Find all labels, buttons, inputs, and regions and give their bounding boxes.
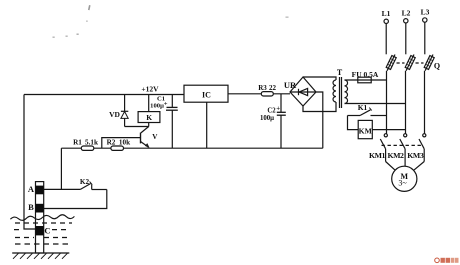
resistor R3 xyxy=(258,84,276,96)
contactor coil KM xyxy=(348,116,406,139)
svg-text:KM3: KM3 xyxy=(407,151,424,160)
svg-text:Q: Q xyxy=(434,62,440,71)
svg-text:R2: R2 xyxy=(107,138,116,146)
svg-text:100μ: 100μ xyxy=(260,115,274,122)
svg-text:VD: VD xyxy=(109,110,120,119)
svg-text:B: B xyxy=(28,202,34,212)
node KM3 label xyxy=(407,151,424,160)
svg-text:5.1k: 5.1k xyxy=(85,138,98,146)
scan noise marks xyxy=(53,5,289,38)
capacitor C2 xyxy=(260,94,286,148)
contact KM3 xyxy=(419,134,426,162)
svg-text:A: A xyxy=(28,184,35,194)
svg-text:V: V xyxy=(152,133,158,141)
water dashes row4 xyxy=(15,243,71,245)
node KM2 label xyxy=(387,151,404,160)
diode VD xyxy=(109,95,128,127)
watermark logo xyxy=(435,258,459,263)
wire primary top / fuse feed xyxy=(345,79,387,81)
wire L2 phase drop xyxy=(405,71,407,134)
svg-text:K: K xyxy=(146,113,152,122)
wire +12V top rail xyxy=(24,94,184,96)
wire bridge right to ground rail xyxy=(316,92,323,148)
water dashes row3 xyxy=(15,237,71,239)
electrode probe bar xyxy=(36,182,44,253)
svg-text:+12V: +12V xyxy=(141,84,159,93)
wire IC output xyxy=(228,93,290,95)
svg-text:FU 0.5A: FU 0.5A xyxy=(352,70,379,79)
wire sensor loop right/bottom xyxy=(44,190,107,209)
svg-text:R1: R1 xyxy=(73,138,82,146)
svg-text:K1: K1 xyxy=(358,103,368,112)
relay coil K xyxy=(138,95,160,127)
svg-text:C2: C2 xyxy=(267,107,276,114)
water surface wave xyxy=(10,215,74,221)
bridge rectifier UR xyxy=(284,77,316,106)
wire VD to K bottom node xyxy=(125,126,149,128)
switch K2 (relay contact) xyxy=(44,178,107,189)
wire bridge top to transformer secondary xyxy=(303,77,336,80)
node C electrode label xyxy=(44,226,50,236)
node L2 terminal xyxy=(402,9,411,55)
switch Q pole 1 xyxy=(386,55,396,71)
switch Q pole 2 xyxy=(405,55,415,71)
contact KM2 xyxy=(400,134,407,167)
svg-text:100μ: 100μ xyxy=(150,102,164,109)
svg-text:10k: 10k xyxy=(119,138,130,146)
svg-text:L1: L1 xyxy=(382,9,391,18)
node A electrode label xyxy=(28,184,35,194)
contact KM1 xyxy=(380,134,387,162)
svg-text:C: C xyxy=(44,226,50,236)
svg-text:KM1: KM1 xyxy=(369,151,386,160)
wire Q linkage dashed xyxy=(397,62,424,64)
node L3 terminal xyxy=(421,8,430,55)
motor M xyxy=(386,162,425,192)
transformer T xyxy=(333,68,348,108)
wire L3 phase drop xyxy=(424,71,426,134)
ground xyxy=(12,253,69,259)
svg-text:KM2: KM2 xyxy=(387,151,404,160)
resistor R2 xyxy=(107,138,130,150)
wire primary bottom to L2 xyxy=(345,103,406,105)
node +12V label xyxy=(141,84,159,93)
transistor V xyxy=(141,127,159,148)
svg-text:3~: 3~ xyxy=(398,179,407,188)
wire bottom rail xyxy=(61,147,322,149)
switch Q pole 3 xyxy=(424,55,440,71)
wire bridge bottom to secondary return xyxy=(303,102,336,112)
svg-text:+: + xyxy=(164,101,168,108)
core xyxy=(340,77,342,108)
switch K1 (relay contact) xyxy=(348,103,387,116)
wire base pickup xyxy=(102,138,141,148)
secondary coil (left) xyxy=(333,80,336,102)
primary coil (right) xyxy=(345,80,348,104)
node KM1 label xyxy=(369,151,386,160)
wire L1 phase drop xyxy=(386,71,388,134)
svg-text:L2: L2 xyxy=(402,9,411,18)
IC U1 (regulator/control chip) xyxy=(184,85,228,148)
svg-text:L3: L3 xyxy=(421,8,430,17)
svg-text:22: 22 xyxy=(269,84,277,92)
fuse FU 0.5A xyxy=(352,70,379,83)
node B electrode label xyxy=(28,202,34,212)
svg-text:KM: KM xyxy=(359,127,372,136)
node L1 terminal xyxy=(382,9,391,54)
svg-text:T: T xyxy=(337,68,343,77)
svg-text:UR: UR xyxy=(284,80,297,90)
water dashes row2 xyxy=(14,229,66,231)
svg-text:+: + xyxy=(276,105,280,112)
water dashes row1 xyxy=(15,222,72,224)
resistor R1 xyxy=(73,138,98,150)
capacitor C1 xyxy=(150,95,178,149)
wire KM linkage dashed xyxy=(382,144,422,146)
svg-text:R3: R3 xyxy=(258,84,267,92)
svg-text:IC: IC xyxy=(202,90,211,99)
wire left drop to electrode C xyxy=(24,95,36,230)
wire riser to K2 junction xyxy=(60,148,62,189)
